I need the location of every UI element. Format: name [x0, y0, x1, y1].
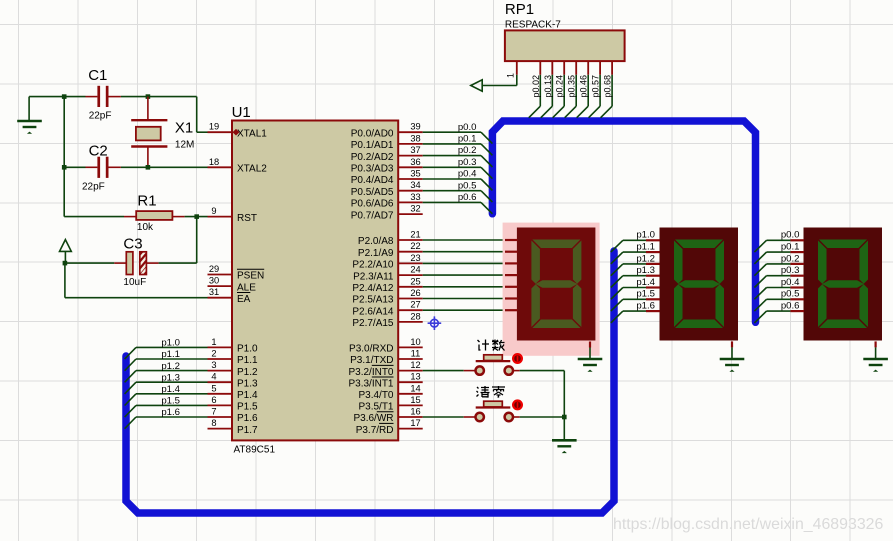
svg-text:9: 9: [211, 206, 216, 216]
svg-text:P2.3/A11: P2.3/A11: [353, 271, 394, 282]
svg-text:P0.1/AD1: P0.1/AD1: [351, 140, 394, 151]
svg-text:RST: RST: [237, 213, 257, 224]
svg-text:p0.5: p0.5: [458, 180, 477, 191]
svg-text:p0.6: p0.6: [781, 301, 800, 312]
svg-text:7: 7: [211, 407, 216, 417]
svg-text:P3.5/T1: P3.5/T1: [358, 402, 393, 413]
svg-text:11: 11: [411, 349, 421, 359]
svg-text:p0.0: p0.0: [458, 122, 477, 133]
svg-text:37: 37: [410, 145, 420, 155]
svg-text:PSEN: PSEN: [237, 271, 264, 282]
svg-text:p1.2: p1.2: [161, 361, 180, 372]
svg-text:23: 23: [410, 253, 420, 263]
svg-text:p0.35: p0.35: [567, 75, 577, 98]
svg-text:p0.2: p0.2: [458, 145, 477, 156]
svg-text:36: 36: [410, 157, 420, 167]
svg-text:P3.6/WR: P3.6/WR: [353, 413, 393, 424]
svg-text:P2.2/A10: P2.2/A10: [352, 260, 394, 271]
svg-text:29: 29: [209, 264, 219, 274]
svg-text:EA: EA: [237, 294, 251, 305]
svg-text:P0.3/AD3: P0.3/AD3: [351, 164, 394, 175]
svg-text:P1.5: P1.5: [237, 402, 258, 413]
svg-text:22pF: 22pF: [89, 110, 112, 121]
svg-text:p0.0: p0.0: [781, 230, 800, 241]
svg-text:31: 31: [209, 287, 219, 297]
svg-text:32: 32: [410, 204, 420, 214]
svg-text:P0.6/AD6: P0.6/AD6: [351, 199, 394, 210]
svg-text:p1.1: p1.1: [161, 349, 180, 360]
svg-text:27: 27: [410, 300, 420, 310]
svg-text:p1.6: p1.6: [636, 301, 655, 312]
svg-text:10uF: 10uF: [123, 277, 146, 288]
svg-text:30: 30: [209, 276, 219, 286]
svg-text:10k: 10k: [137, 222, 154, 233]
svg-text:p0.3: p0.3: [458, 157, 477, 168]
svg-text:p0.5: p0.5: [781, 289, 800, 300]
svg-text:25: 25: [410, 276, 420, 286]
svg-text:P3.2/INT0: P3.2/INT0: [348, 367, 393, 378]
svg-text:p1.3: p1.3: [636, 265, 655, 276]
svg-text:12M: 12M: [175, 139, 194, 150]
svg-text:38: 38: [410, 133, 420, 143]
svg-text:AT89C51: AT89C51: [234, 445, 276, 456]
svg-text:P1.0: P1.0: [237, 344, 258, 355]
svg-text:p0.4: p0.4: [781, 277, 800, 288]
svg-text:RESPACK-7: RESPACK-7: [505, 20, 561, 31]
svg-text:p1.2: p1.2: [636, 253, 655, 264]
svg-text:P3.0/RXD: P3.0/RXD: [349, 344, 393, 355]
svg-text:33: 33: [410, 192, 420, 202]
svg-text:p1.0: p1.0: [636, 230, 655, 241]
svg-text:24: 24: [410, 265, 420, 275]
svg-text:P2.5/A13: P2.5/A13: [352, 295, 394, 306]
svg-text:35: 35: [410, 169, 420, 179]
svg-text:p0.4: p0.4: [458, 169, 477, 180]
svg-text:XTAL2: XTAL2: [237, 164, 267, 175]
svg-text:P2.6/A14: P2.6/A14: [352, 306, 394, 317]
svg-text:22pF: 22pF: [82, 181, 105, 192]
svg-text:P1.2: P1.2: [237, 367, 258, 378]
svg-text:4: 4: [211, 372, 216, 382]
svg-text:p0.1: p0.1: [458, 134, 477, 145]
svg-text:p0.3: p0.3: [781, 265, 800, 276]
svg-text:16: 16: [410, 407, 420, 417]
svg-text:21: 21: [410, 230, 420, 240]
svg-text:X1: X1: [175, 120, 193, 137]
svg-text:U1: U1: [232, 104, 251, 121]
svg-text:2: 2: [211, 349, 216, 359]
svg-text:1: 1: [505, 73, 515, 78]
svg-text:p0.46: p0.46: [579, 75, 589, 98]
svg-text:8: 8: [211, 418, 216, 428]
svg-text:XTAL1: XTAL1: [237, 128, 267, 139]
svg-text:C1: C1: [88, 67, 107, 84]
svg-text:13: 13: [410, 372, 420, 382]
svg-text:P1.3: P1.3: [237, 378, 258, 389]
svg-text:P1.7: P1.7: [237, 425, 258, 436]
svg-text:10: 10: [410, 337, 420, 347]
svg-text:34: 34: [410, 180, 420, 190]
svg-text:p1.5: p1.5: [161, 396, 180, 407]
svg-text:p0.6: p0.6: [458, 192, 477, 203]
svg-text:6: 6: [211, 395, 216, 405]
svg-text:19: 19: [209, 122, 219, 132]
svg-text:p0.24: p0.24: [555, 75, 565, 98]
svg-text:ALE: ALE: [237, 282, 256, 293]
svg-text:P2.4/A12: P2.4/A12: [352, 283, 394, 294]
svg-text:p0.13: p0.13: [543, 75, 553, 98]
svg-text:C2: C2: [89, 142, 108, 159]
svg-text:p1.3: p1.3: [161, 372, 180, 383]
svg-text:P3.4/T0: P3.4/T0: [358, 390, 393, 401]
svg-text:P2.0/A8: P2.0/A8: [358, 236, 394, 247]
svg-text:26: 26: [410, 288, 420, 298]
svg-text:p1.4: p1.4: [161, 384, 180, 395]
svg-text:22: 22: [410, 241, 420, 251]
svg-text:p1.1: p1.1: [636, 242, 655, 253]
svg-text:28: 28: [410, 311, 420, 321]
svg-text:P0.4/AD4: P0.4/AD4: [351, 175, 394, 186]
svg-text:18: 18: [209, 157, 219, 167]
svg-text:p0.68: p0.68: [603, 75, 613, 98]
svg-text:P0.7/AD7: P0.7/AD7: [351, 210, 394, 221]
svg-text:39: 39: [410, 122, 420, 132]
svg-text:C3: C3: [123, 236, 142, 253]
svg-text:P2.1/A9: P2.1/A9: [358, 248, 394, 259]
svg-text:p0.1: p0.1: [781, 242, 800, 253]
svg-text:15: 15: [410, 395, 420, 405]
svg-text:p1.0: p1.0: [161, 338, 180, 349]
svg-text:14: 14: [410, 383, 420, 393]
svg-text:P0.5/AD5: P0.5/AD5: [351, 187, 394, 198]
svg-text:p1.5: p1.5: [636, 289, 655, 300]
svg-text:12: 12: [410, 360, 420, 370]
svg-text:RP1: RP1: [505, 1, 534, 18]
svg-text:P1.1: P1.1: [237, 355, 258, 366]
svg-text:3: 3: [211, 360, 216, 370]
svg-text:p1.4: p1.4: [636, 277, 655, 288]
svg-text:P3.1/TXD: P3.1/TXD: [350, 355, 393, 366]
svg-text:P1.4: P1.4: [237, 390, 258, 401]
svg-text:https://blog.csdn.net/weixin_4: https://blog.csdn.net/weixin_46893326: [613, 516, 883, 533]
svg-text:p0.57: p0.57: [591, 75, 601, 98]
svg-text:P1.6: P1.6: [237, 413, 258, 424]
svg-text:1: 1: [211, 337, 216, 347]
svg-text:p0.2: p0.2: [781, 253, 800, 264]
svg-text:P3.7/RD: P3.7/RD: [356, 425, 394, 436]
svg-text:P2.7/A15: P2.7/A15: [352, 318, 394, 329]
svg-text:17: 17: [410, 418, 420, 428]
svg-text:5: 5: [211, 383, 216, 393]
svg-text:p1.6: p1.6: [161, 407, 180, 418]
svg-text:P0.2/AD2: P0.2/AD2: [351, 152, 394, 163]
svg-text:p0.02: p0.02: [531, 75, 541, 98]
svg-text:P0.0/AD0: P0.0/AD0: [351, 128, 394, 139]
svg-text:R1: R1: [137, 193, 156, 210]
svg-text:P3.3/INT1: P3.3/INT1: [348, 378, 393, 389]
